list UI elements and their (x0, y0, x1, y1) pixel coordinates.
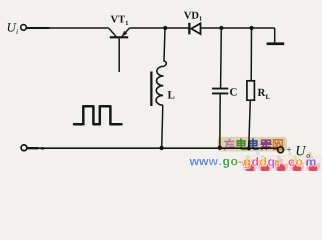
capacitor C bottom plate (212, 93, 228, 95)
output terminal (open circle) (278, 147, 284, 153)
inductor L branch wire + coil (164, 28, 166, 66)
node junction dot (load bottom) (247, 146, 251, 150)
label RL (258, 89, 266, 96)
resistor RL bottom lead (249, 100, 251, 148)
watermark char 5 wang (orange) (273, 140, 282, 150)
transistor VT1 base lead (118, 38, 120, 72)
node junction dot (capacitor top) (219, 26, 223, 30)
watermark flowers bottom right (241, 152, 322, 173)
watermark char 1 guang (lavender) (225, 139, 235, 149)
diode VD1 cathode bar (188, 23, 190, 35)
capacitor C top lead (220, 28, 223, 88)
wire top rail right (201, 27, 275, 29)
transistor VT1 collector diagonal (109, 28, 116, 36)
bottom left terminal (open circle) (21, 145, 27, 151)
node junction dot (inductor bottom) (159, 146, 163, 150)
watermark char 4 qi (purple) (261, 140, 271, 149)
resistor RL top lead (250, 28, 252, 81)
node junction dot (capacitor bottom) (218, 146, 222, 150)
wire bottom rail (27, 147, 278, 149)
label Ui (8, 23, 17, 32)
ground lead (274, 28, 276, 43)
ground bar (267, 42, 285, 45)
watermark char 3 dian (blue) (249, 139, 258, 149)
input terminal (open circle) (21, 25, 27, 31)
label Uo (297, 146, 307, 155)
resistor RL body (247, 81, 255, 100)
node junction dot (load top) (250, 26, 254, 30)
paper background (0, 0, 322, 171)
diode VD1 label (184, 12, 199, 19)
label L (168, 91, 175, 98)
wire top rail left thick scan segment (26, 27, 49, 29)
wire top rail middle (130, 27, 189, 29)
capacitor C bottom lead (219, 94, 221, 147)
diode VD1 triangle (191, 23, 200, 34)
transistor VT1 base bar (110, 36, 128, 38)
watermark char 2 dian (green) (237, 139, 246, 149)
label + (287, 147, 291, 151)
watermark tan background (218, 137, 288, 152)
label C (230, 88, 237, 95)
capacitor C top plate (212, 88, 228, 90)
wire top rail left (26, 27, 108, 29)
transistor VT1 emitter diagonal with arrow (122, 28, 130, 36)
inductor L core bar (150, 72, 152, 107)
wire bottom rail thick scan segments (28, 147, 45, 149)
node junction dot (switch node) (163, 26, 167, 30)
square wave drive symbol (74, 106, 122, 124)
watermark www.go-gddq.com (189, 157, 315, 168)
transistor VT1 label (111, 16, 125, 23)
